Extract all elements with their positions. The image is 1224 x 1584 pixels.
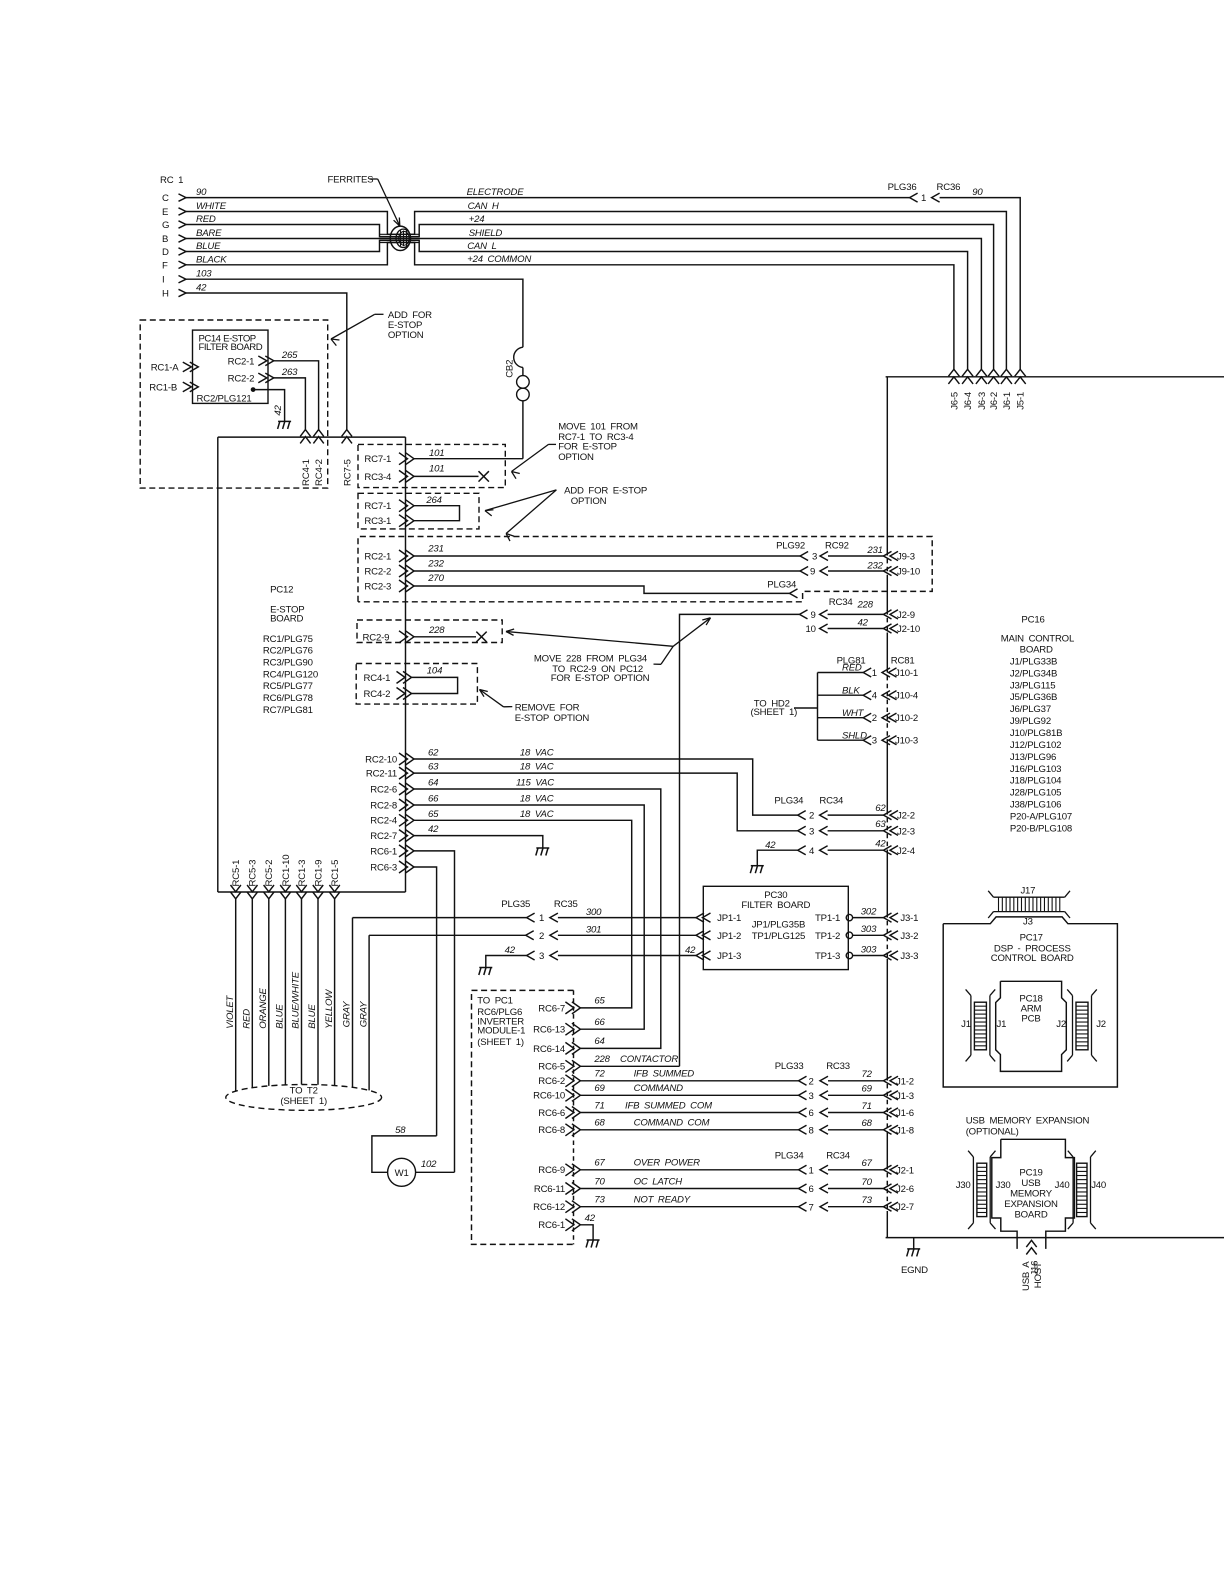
- svg-text:RC4-2: RC4-2: [364, 689, 391, 700]
- svg-text:RC2-2: RC2-2: [228, 373, 255, 384]
- wire EGND stub: [913, 1238, 915, 1249]
- svg-text:PLG35: PLG35: [501, 899, 530, 910]
- wire ORANGE to T2: [268, 899, 270, 1086]
- svg-text:BLACK: BLACK: [196, 254, 227, 265]
- wire SHLD row J10-3: [818, 739, 864, 741]
- wire 103 RC1-I to CB2: [186, 279, 523, 347]
- svg-text:303: 303: [861, 924, 877, 935]
- svg-text:PLG34: PLG34: [767, 579, 797, 590]
- svg-text:90: 90: [972, 187, 983, 198]
- svg-text:CAN H: CAN H: [468, 201, 499, 212]
- svg-text:1: 1: [539, 913, 544, 924]
- svg-text:J2-3: J2-3: [897, 826, 915, 837]
- svg-text:USB: USB: [1021, 1178, 1040, 1189]
- pin RC7-5 (top): [342, 430, 352, 437]
- wire 67 row J2-1: [799, 1165, 807, 1174]
- svg-text:72: 72: [594, 1069, 605, 1080]
- svg-text:OPTION: OPTION: [388, 330, 424, 341]
- svg-text:WHT: WHT: [842, 708, 865, 719]
- ground (PLG35-3 42): [479, 967, 492, 969]
- svg-text:FOR E-STOP: FOR E-STOP: [558, 442, 617, 453]
- svg-text:3: 3: [539, 951, 544, 962]
- svg-text:J2/PLG34B: J2/PLG34B: [1010, 668, 1057, 679]
- svg-text:+24: +24: [469, 214, 485, 225]
- svg-text:RC2-1: RC2-1: [228, 356, 255, 367]
- svg-text:J40: J40: [1091, 1180, 1106, 1191]
- wire 228 CONTACTOR RC6-5 branch: [580, 1065, 679, 1067]
- svg-text:J2-9: J2-9: [897, 610, 915, 621]
- board PC30 FILTER BOARD: [703, 886, 848, 969]
- svg-text:PC17: PC17: [1020, 933, 1043, 944]
- svg-text:42: 42: [273, 404, 284, 415]
- svg-text:TP1/PLG125: TP1/PLG125: [752, 931, 805, 942]
- svg-text:66: 66: [428, 794, 439, 805]
- svg-text:HOST: HOST: [1033, 1262, 1044, 1288]
- svg-text:(SHEET 1): (SHEET 1): [280, 1096, 327, 1107]
- svg-text:ORANGE: ORANGE: [258, 988, 269, 1029]
- svg-text:67: 67: [862, 1158, 873, 1169]
- wire bus to main control board (top): [886, 376, 1224, 378]
- ground (J2-4 42): [751, 865, 764, 867]
- svg-text:RC33: RC33: [826, 1061, 850, 1072]
- svg-text:228: 228: [428, 625, 445, 636]
- svg-text:1: 1: [921, 193, 926, 204]
- svg-text:RC2-1: RC2-1: [364, 552, 391, 563]
- svg-text:J2-1: J2-1: [896, 1165, 914, 1176]
- svg-text:303: 303: [861, 944, 877, 955]
- svg-text:RC 1: RC 1: [160, 175, 183, 186]
- svg-text:WHITE: WHITE: [196, 201, 227, 212]
- svg-text:RC6-12: RC6-12: [533, 1202, 565, 1213]
- svg-text:RC2-9: RC2-9: [363, 632, 390, 643]
- svg-text:J17: J17: [1020, 885, 1035, 896]
- dashed option box RC4-1/RC4-2 (remove): [356, 664, 477, 705]
- wire 71 row J1-6: [799, 1108, 807, 1117]
- svg-text:J2-10: J2-10: [897, 624, 920, 635]
- wire WHT row J10-2: [818, 717, 864, 719]
- svg-text:RC4-1: RC4-1: [364, 673, 391, 684]
- svg-text:E: E: [162, 207, 168, 218]
- svg-text:J1-2: J1-2: [896, 1076, 914, 1087]
- svg-text:G: G: [162, 220, 169, 231]
- svg-text:RC4-1: RC4-1: [301, 459, 312, 486]
- wire RED to T2: [251, 899, 253, 1088]
- svg-text:J40: J40: [1055, 1180, 1070, 1191]
- svg-text:RC6-5: RC6-5: [538, 1062, 565, 1073]
- svg-text:RC6-8: RC6-8: [538, 1125, 565, 1136]
- wire 228 row J2-9 from RC6-5: [800, 610, 808, 619]
- svg-text:BLK: BLK: [842, 685, 860, 696]
- svg-text:101: 101: [429, 448, 444, 459]
- svg-text:JP1-2: JP1-2: [717, 931, 741, 942]
- svg-text:EGND: EGND: [901, 1265, 928, 1276]
- svg-text:C: C: [162, 193, 169, 204]
- svg-text:104: 104: [427, 666, 442, 677]
- node TO T2 (SHEET 1) ellipse: [226, 1085, 382, 1111]
- svg-text:J16/PLG103: J16/PLG103: [1010, 764, 1061, 775]
- svg-text:J6-1: J6-1: [1002, 392, 1013, 410]
- svg-text:232: 232: [866, 561, 883, 572]
- svg-text:RC2-10: RC2-10: [365, 754, 397, 765]
- svg-text:228: 228: [593, 1054, 610, 1065]
- dashed option box MOVE-101 (RC7-1/RC3-4): [358, 444, 505, 487]
- svg-text:65: 65: [594, 996, 605, 1007]
- svg-text:3: 3: [812, 552, 817, 563]
- svg-text:231: 231: [866, 545, 882, 556]
- svg-text:BLUE: BLUE: [196, 241, 221, 252]
- wire 68 row J1-8: [799, 1125, 807, 1134]
- wire CAN H RC1-E through ferrite to J6-1: [186, 212, 1006, 370]
- svg-text:10: 10: [806, 624, 816, 635]
- svg-text:E-STOP OPTION: E-STOP OPTION: [515, 713, 590, 724]
- svg-text:18 VAC: 18 VAC: [520, 809, 554, 820]
- svg-text:PCB: PCB: [1021, 1014, 1040, 1025]
- svg-text:J3-2: J3-2: [900, 931, 918, 942]
- svg-text:RC3/PLG90: RC3/PLG90: [263, 658, 313, 669]
- svg-text:J3-1: J3-1: [900, 913, 918, 924]
- svg-text:RC3-4: RC3-4: [364, 472, 392, 483]
- svg-text:RC7-1: RC7-1: [364, 454, 391, 465]
- svg-text:J10-3: J10-3: [895, 736, 918, 747]
- wire SHIELD RC1-B through ferrite to J6-3: [186, 239, 981, 370]
- svg-text:103: 103: [196, 269, 212, 280]
- svg-text:BOARD: BOARD: [1020, 644, 1053, 655]
- svg-text:73: 73: [862, 1195, 873, 1206]
- svg-text:RC7-1: RC7-1: [364, 501, 391, 512]
- dashed box TO PC1 RC6/PLG6 INVERTER MODULE-1: [472, 990, 574, 1244]
- connector pin J6-5: [948, 369, 959, 376]
- board PC18 ARM PCB: [996, 981, 1067, 1071]
- wire BLUE to T2: [317, 899, 319, 1085]
- svg-text:63: 63: [428, 762, 439, 773]
- svg-text:J38/PLG106: J38/PLG106: [1010, 800, 1061, 811]
- wire main vertical bus J-connector column: [886, 377, 888, 551]
- svg-text:MEMORY: MEMORY: [1010, 1189, 1053, 1200]
- svg-text:6: 6: [809, 1184, 814, 1195]
- svg-text:72: 72: [862, 1069, 873, 1080]
- svg-text:RC7-5: RC7-5: [342, 459, 353, 486]
- svg-text:PLG36: PLG36: [888, 182, 917, 193]
- wire +24 COMMON RC1-F through ferrite to J6-5: [186, 243, 954, 370]
- svg-text:J2-6: J2-6: [896, 1184, 914, 1195]
- svg-text:8: 8: [809, 1125, 814, 1136]
- svg-text:RC2-7: RC2-7: [370, 831, 397, 842]
- svg-text:6: 6: [809, 1108, 814, 1119]
- wire 301 row PLG35-2: [369, 934, 526, 936]
- svg-text:TP1-3: TP1-3: [815, 951, 840, 962]
- board PC19 USB MEMORY EXPANSION BOARD: [1001, 1139, 1075, 1249]
- svg-text:J9/PLG92: J9/PLG92: [1010, 716, 1051, 727]
- svg-text:CONTACTOR: CONTACTOR: [620, 1054, 678, 1065]
- svg-text:SHIELD: SHIELD: [469, 228, 503, 239]
- svg-text:RC2-6: RC2-6: [370, 784, 397, 795]
- svg-text:MAIN CONTROL: MAIN CONTROL: [1001, 634, 1075, 645]
- svg-text:62: 62: [428, 748, 439, 759]
- svg-text:CONTROL BOARD: CONTROL BOARD: [991, 953, 1074, 964]
- svg-text:BLUE: BLUE: [307, 1004, 318, 1029]
- wire 62 RC2-10 to PLG34-2: [414, 759, 798, 815]
- wire YELLOW to T2: [334, 899, 336, 1086]
- svg-text:RC6-6: RC6-6: [538, 1108, 565, 1119]
- wire 42 RC1-H to RC7-5: [186, 293, 347, 430]
- svg-text:115 VAC: 115 VAC: [516, 778, 554, 789]
- svg-text:42: 42: [428, 824, 439, 835]
- svg-text:42: 42: [196, 283, 207, 294]
- svg-text:3: 3: [809, 1091, 814, 1102]
- svg-text:RC5-2: RC5-2: [264, 860, 275, 887]
- wire 42 RC6-1 to ground: [580, 1225, 593, 1240]
- pin RC4-2 (top): [313, 430, 323, 437]
- svg-text:FILTER BOARD: FILTER BOARD: [199, 342, 263, 353]
- connector pin J6-4: [962, 369, 973, 376]
- svg-text:H: H: [162, 289, 169, 300]
- svg-text:RC1-3: RC1-3: [297, 860, 308, 887]
- svg-text:RC6-13: RC6-13: [533, 1025, 565, 1036]
- wire CAN L RC1-D through ferrite to J6-4: [186, 240, 968, 369]
- svg-text:JP1-1: JP1-1: [717, 913, 741, 924]
- wire 63 row J2-3: [798, 826, 806, 835]
- svg-text:GRAY: GRAY: [342, 1001, 353, 1027]
- svg-text:P20-A/PLG107: P20-A/PLG107: [1010, 811, 1072, 822]
- svg-text:RC81: RC81: [891, 655, 915, 666]
- svg-text:RC6-2: RC6-2: [538, 1076, 565, 1087]
- svg-text:COMMAND COM: COMMAND COM: [634, 1118, 710, 1129]
- svg-text:J6-5: J6-5: [949, 392, 960, 410]
- svg-text:264: 264: [425, 495, 441, 506]
- svg-text:70: 70: [862, 1177, 873, 1188]
- svg-text:J18/PLG104: J18/PLG104: [1010, 776, 1062, 787]
- svg-text:J1/PLG33B: J1/PLG33B: [1010, 656, 1057, 667]
- svg-text:RC5/PLG77: RC5/PLG77: [263, 681, 313, 692]
- svg-text:TP1-2: TP1-2: [815, 931, 840, 942]
- svg-text:RC34: RC34: [826, 1151, 851, 1162]
- svg-text:OPTION: OPTION: [571, 496, 607, 507]
- svg-text:4: 4: [809, 846, 815, 857]
- pin RC4-1 (top): [300, 430, 310, 437]
- svg-text:2: 2: [809, 811, 814, 822]
- svg-text:USB A: USB A: [1021, 1261, 1032, 1291]
- svg-text:J2: J2: [1056, 1019, 1066, 1030]
- svg-text:PLG34: PLG34: [775, 1151, 805, 1162]
- svg-text:PC12: PC12: [270, 585, 293, 596]
- wire 66 RC2-8 to RC6-13: [414, 805, 644, 1029]
- svg-text:42: 42: [875, 838, 886, 849]
- svg-text:BLUE: BLUE: [275, 1004, 286, 1029]
- connector pin J6-2: [988, 369, 999, 376]
- svg-text:RC5-3: RC5-3: [248, 860, 259, 887]
- svg-text:231: 231: [427, 544, 443, 555]
- svg-text:RED: RED: [196, 214, 216, 225]
- svg-text:RC34: RC34: [829, 597, 854, 608]
- svg-text:265: 265: [281, 350, 298, 361]
- svg-text:PC30: PC30: [764, 890, 787, 901]
- component W1: [388, 1158, 416, 1186]
- svg-text:73: 73: [594, 1195, 605, 1206]
- svg-text:BOARD: BOARD: [270, 613, 303, 624]
- svg-text:+24 COMMON: +24 COMMON: [467, 254, 531, 265]
- svg-text:RC6-1: RC6-1: [538, 1220, 565, 1231]
- svg-text:BOARD: BOARD: [1014, 1210, 1047, 1221]
- svg-text:RC2/PLG76: RC2/PLG76: [263, 646, 313, 657]
- svg-text:J2-2: J2-2: [897, 811, 915, 822]
- svg-text:1: 1: [809, 1165, 814, 1176]
- connector pin J5-1: [1015, 369, 1026, 376]
- svg-text:PC19: PC19: [1019, 1167, 1042, 1178]
- wire RC6-11 row: [580, 1188, 798, 1190]
- pin PLG92-9 row J9-10: [800, 567, 808, 576]
- svg-text:69: 69: [862, 1084, 873, 1095]
- svg-text:OVER POWER: OVER POWER: [634, 1158, 701, 1169]
- svg-text:263: 263: [281, 367, 298, 378]
- svg-text:9: 9: [811, 610, 816, 621]
- wire RED row J10-1: [818, 672, 864, 674]
- svg-text:J1: J1: [961, 1019, 971, 1030]
- wire RC6-2 row: [580, 1080, 798, 1082]
- svg-text:USB MEMORY EXPANSION: USB MEMORY EXPANSION: [966, 1115, 1090, 1126]
- svg-text:J10-2: J10-2: [895, 713, 918, 724]
- svg-text:J1: J1: [997, 1019, 1007, 1030]
- svg-text:3: 3: [872, 736, 877, 747]
- svg-text:TP1-1: TP1-1: [815, 913, 840, 924]
- svg-text:MODULE-1: MODULE-1: [477, 1026, 525, 1037]
- svg-text:71: 71: [862, 1101, 872, 1112]
- svg-text:RC5-1: RC5-1: [231, 860, 242, 887]
- wire PC12 board edge loop: [218, 436, 406, 438]
- wire 42 RC2-7 to ground: [414, 836, 543, 848]
- svg-text:J6/PLG37: J6/PLG37: [1010, 704, 1051, 715]
- svg-text:J30: J30: [956, 1180, 971, 1191]
- connector J16 USB A HOST: [1026, 1240, 1036, 1247]
- svg-text:18 VAC: 18 VAC: [520, 762, 554, 773]
- svg-text:J5-1: J5-1: [1016, 392, 1027, 410]
- svg-text:66: 66: [594, 1017, 605, 1028]
- svg-text:TO T2: TO T2: [290, 1085, 318, 1096]
- svg-text:F: F: [162, 260, 168, 271]
- svg-text:J3-3: J3-3: [900, 951, 918, 962]
- svg-text:71: 71: [594, 1100, 604, 1111]
- wire 65 RC2-4 to RC6-7: [414, 820, 632, 1008]
- svg-text:42: 42: [505, 945, 516, 956]
- wire RC6-12 row: [580, 1206, 798, 1208]
- wire RC6-10 row: [580, 1094, 798, 1096]
- wire 70 row J2-6: [799, 1184, 807, 1193]
- svg-text:2: 2: [809, 1076, 814, 1087]
- wire 69 row J1-3: [799, 1091, 807, 1100]
- svg-text:JP1/PLG35B: JP1/PLG35B: [752, 920, 805, 931]
- dashed option box RC2-9: [357, 620, 502, 643]
- svg-text:RC3-1: RC3-1: [364, 516, 391, 527]
- wire BLK row J10-4: [818, 694, 864, 696]
- svg-text:GRAY: GRAY: [358, 1001, 369, 1027]
- svg-text:67: 67: [594, 1158, 605, 1169]
- svg-text:3: 3: [809, 826, 814, 837]
- wire RC6-1 to W1/102 branch: [414, 851, 455, 1172]
- svg-text:RC6-1: RC6-1: [370, 846, 397, 857]
- svg-text:4: 4: [872, 691, 878, 702]
- ground (RC2-7 42): [536, 847, 549, 849]
- svg-text:RC2-11: RC2-11: [366, 769, 397, 780]
- svg-text:FERRITES: FERRITES: [328, 175, 374, 186]
- svg-text:RC1-5: RC1-5: [330, 860, 341, 887]
- svg-text:300: 300: [586, 907, 602, 918]
- svg-text:BLUE/WHITE: BLUE/WHITE: [291, 971, 302, 1028]
- svg-text:63: 63: [875, 819, 886, 830]
- svg-text:RC1-B: RC1-B: [149, 382, 177, 393]
- svg-text:RC2/PLG121: RC2/PLG121: [197, 394, 252, 405]
- svg-text:MOVE 228 FROM PLG34: MOVE 228 FROM PLG34: [534, 653, 648, 664]
- svg-text:42: 42: [685, 945, 696, 956]
- svg-text:ELECTRODE: ELECTRODE: [467, 187, 525, 198]
- svg-text:42: 42: [765, 840, 776, 851]
- svg-text:J6-2: J6-2: [989, 392, 1000, 410]
- svg-text:PLG92: PLG92: [776, 541, 805, 552]
- svg-text:RC34: RC34: [819, 795, 844, 806]
- svg-text:OPTION: OPTION: [558, 452, 594, 463]
- svg-text:1: 1: [872, 668, 877, 679]
- svg-text:RC2-3: RC2-3: [364, 582, 391, 593]
- ground EGND: [907, 1248, 920, 1250]
- svg-text:IFB SUMMED COM: IFB SUMMED COM: [625, 1100, 712, 1111]
- svg-text:BARE: BARE: [196, 228, 222, 239]
- svg-text:RC6-9: RC6-9: [538, 1165, 565, 1176]
- svg-text:J9-10: J9-10: [897, 567, 920, 578]
- wire GRAY to T2 (from PLG35-2 row): [368, 935, 370, 1090]
- svg-text:RC2-8: RC2-8: [370, 800, 397, 811]
- svg-text:RC6-11: RC6-11: [534, 1184, 565, 1195]
- svg-text:P20-B/PLG108: P20-B/PLG108: [1010, 823, 1072, 834]
- svg-text:D: D: [162, 247, 169, 258]
- svg-text:(OPTIONAL): (OPTIONAL): [966, 1127, 1019, 1138]
- svg-text:J2-7: J2-7: [896, 1202, 914, 1213]
- svg-text:68: 68: [594, 1118, 605, 1129]
- wire GRAY to T2 (from PLG35-1 row): [352, 918, 354, 1088]
- svg-text:7: 7: [809, 1202, 814, 1213]
- wire 62 row J2-2: [798, 811, 806, 820]
- svg-text:9: 9: [810, 567, 815, 578]
- svg-text:J2: J2: [1096, 1019, 1106, 1030]
- wire +24 RC1-G through ferrite to J6-2: [186, 225, 994, 370]
- wire 72 row J1-2: [799, 1076, 807, 1085]
- svg-text:64: 64: [594, 1036, 604, 1047]
- svg-text:70: 70: [594, 1176, 605, 1187]
- board PC17 DSP - PROCESS CONTROL BOARD: [943, 917, 1117, 1087]
- svg-text:PC16: PC16: [1021, 614, 1044, 625]
- wire 300 row PLG35-1: [353, 917, 527, 919]
- svg-text:J28/PLG105: J28/PLG105: [1010, 788, 1061, 799]
- svg-text:RC1-10: RC1-10: [281, 855, 292, 887]
- svg-text:OC LATCH: OC LATCH: [634, 1176, 683, 1187]
- svg-text:W1: W1: [395, 1168, 409, 1179]
- svg-text:J2-4: J2-4: [897, 846, 916, 857]
- wire TO HD2 stub: [794, 707, 818, 709]
- svg-text:42: 42: [585, 1213, 596, 1224]
- connector pin J6-1: [1001, 369, 1012, 376]
- svg-text:J13/PLG96: J13/PLG96: [1010, 752, 1056, 763]
- svg-text:J5/PLG36B: J5/PLG36B: [1010, 692, 1057, 703]
- svg-text:J1-6: J1-6: [896, 1108, 914, 1119]
- svg-text:65: 65: [428, 809, 439, 820]
- svg-text:RC4-2: RC4-2: [314, 459, 325, 486]
- svg-text:CB2: CB2: [505, 360, 516, 378]
- svg-text:58: 58: [395, 1125, 406, 1136]
- svg-text:I: I: [162, 275, 164, 286]
- svg-text:RC92: RC92: [825, 541, 849, 552]
- svg-text:J1-3: J1-3: [896, 1091, 914, 1102]
- svg-text:J10-4: J10-4: [895, 691, 919, 702]
- svg-text:RC4/PLG120: RC4/PLG120: [263, 669, 318, 680]
- wire RC6-6 row: [580, 1112, 798, 1114]
- svg-text:TO PC1: TO PC1: [477, 996, 512, 1007]
